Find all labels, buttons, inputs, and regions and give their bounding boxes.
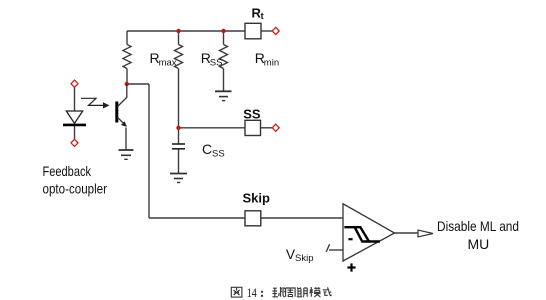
- label Rt: [252, 5, 264, 21]
- terminal diamond opto cathode: [71, 139, 78, 146]
- junction dot SS node: [176, 126, 180, 130]
- wire SS box to terminal: [261, 127, 273, 129]
- caption: 图 14：跳周期模式 (drawn, CJK font unavailable): [231, 287, 242, 297]
- label Disable ML and MU: [437, 218, 519, 252]
- svg-text:Skip: Skip: [243, 190, 271, 205]
- wire opto LED cathode lead: [74, 126, 76, 140]
- wire RSS top lead: [223, 31, 225, 45]
- resistor RSS: [220, 45, 228, 69]
- label CSS: [202, 141, 225, 159]
- wire left vertical (rail to resistor): [126, 31, 128, 45]
- svg-text:Disable ML and: Disable ML and: [437, 218, 519, 234]
- hanzi 图: [231, 287, 242, 297]
- comparator plus sign: [347, 263, 355, 271]
- svg-text:Feedback: Feedback: [43, 163, 92, 179]
- wire skip vertical drop: [148, 84, 150, 218]
- wire top rail: [127, 30, 245, 32]
- opto light arrow: [81, 98, 104, 105]
- pin box Skip: [245, 211, 261, 226]
- hanzi 跳: [272, 287, 285, 297]
- ground (below CSS): [170, 174, 187, 183]
- svg-text:max: max: [159, 57, 177, 68]
- hanzi 模: [310, 287, 321, 297]
- wire skip to Skip box: [149, 217, 245, 219]
- resistor Rmax: [175, 45, 183, 69]
- wire resistor to collector node: [126, 69, 128, 85]
- junction dot RSS/rail: [221, 29, 225, 33]
- wire RSS bottom to ground: [223, 69, 225, 92]
- svg-text:14: 14: [247, 286, 258, 300]
- wire capacitor to ground: [178, 149, 180, 174]
- comparator minus sign: [348, 238, 352, 240]
- wire SS node to capacitor: [178, 128, 180, 144]
- opto LED diode: [63, 111, 86, 125]
- label Rmax: [150, 50, 177, 68]
- terminal diamond opto anode: [71, 80, 78, 87]
- svg-text:C: C: [202, 141, 212, 157]
- svg-text:SS: SS: [212, 148, 225, 159]
- terminal diamond Rt: [272, 27, 279, 34]
- pin box Rt: [245, 23, 261, 39]
- junction dot collector node: [125, 82, 129, 86]
- wire Rmax bottom to SS node: [178, 69, 180, 128]
- output open arrowhead: [418, 230, 433, 237]
- junction dot Rmax/rail: [176, 29, 180, 33]
- svg-text:Skip: Skip: [295, 253, 313, 264]
- label Rmin: [255, 50, 279, 68]
- label Feedback opto-coupler: [43, 163, 108, 196]
- wire Rt box to terminal: [261, 30, 273, 32]
- wire Skip box to comparator minus input: [261, 217, 343, 219]
- wire SS node to SS box: [179, 127, 246, 129]
- svg-text:SS: SS: [243, 107, 261, 122]
- Vskip lead tick: [326, 244, 329, 252]
- svg-text:min: min: [264, 57, 279, 68]
- wire Vskip to comparator plus input: [329, 249, 343, 251]
- svg-text:opto-coupler: opto-coupler: [43, 180, 108, 196]
- svg-text:V: V: [286, 247, 295, 262]
- hanzi 周: [286, 288, 296, 297]
- wire emitter to ground: [125, 128, 127, 151]
- ground (below phototransistor emitter): [119, 150, 134, 159]
- pin box SS: [245, 120, 261, 135]
- svg-text:SS: SS: [210, 57, 223, 68]
- wire comparator output: [395, 232, 419, 234]
- comparator hysteresis symbol: [344, 227, 379, 241]
- svg-text:t: t: [261, 11, 264, 21]
- hanzi 期: [297, 287, 307, 297]
- label RSS: [201, 50, 223, 68]
- svg-text:MU: MU: [468, 236, 490, 252]
- label VSkip: [286, 247, 313, 264]
- wire opto LED anode lead: [74, 87, 76, 111]
- comparator U1: [343, 204, 395, 261]
- hanzi 式: [323, 287, 332, 296]
- ground (below RSS): [215, 91, 232, 100]
- resistor (opto collector pull-up): [123, 45, 131, 69]
- wire collector node to skip drop: [127, 83, 149, 85]
- terminal diamond SS: [272, 124, 279, 131]
- caption fullwidth colon: [261, 291, 263, 297]
- wire Rmax top lead: [178, 31, 180, 45]
- capacitor CSS: [172, 144, 185, 149]
- phototransistor Q1: [117, 84, 127, 127]
